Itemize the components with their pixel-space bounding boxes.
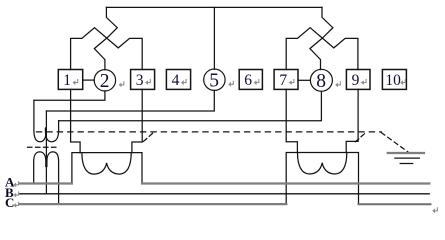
return mark after 8	[335, 81, 340, 87]
wire: horizontal run 1, from CT phase-A riser to terminal 2 bottom	[34, 91, 105, 100]
wire: left crossing, top-bus to terminal 2 top (zigzag with X)	[94, 7, 117, 69]
svg-text:9: 9	[352, 72, 360, 89]
terminal circle 2	[94, 70, 115, 91]
transformer TV primary loop U1 (phase A side)	[34, 100, 46, 141]
element 1 current coil frame (in series with bus A)	[72, 153, 142, 184]
terminal box 7	[274, 70, 298, 90]
return mark after 3	[145, 79, 150, 85]
terminal box 9	[346, 70, 370, 90]
transformer TV secondary loop W1 to bus A	[34, 152, 46, 184]
bus C left segment (gray)	[20, 203, 287, 205]
ground symbol middle bar	[395, 157, 419, 159]
return mark after A	[13, 181, 18, 187]
wire: right crossing, top-bus to terminal 8 top (zigzag with X)	[310, 7, 333, 69]
wire: link terminal 7 to terminal 8	[298, 79, 310, 81]
return mark after 7	[289, 79, 294, 85]
wire: left crossing, terminal 1 to terminal 3 (zigzag link over X)	[71, 28, 143, 70]
terminal box 4	[166, 70, 190, 90]
wire: horizontal run 3, from CT phase-C riser to terminal 8 bottom	[59, 91, 322, 120]
element 1 current coil winding arcs	[82, 153, 131, 175]
return mark after 5	[228, 81, 233, 87]
svg-text:7: 7	[279, 72, 287, 89]
return mark after 6	[254, 79, 259, 85]
terminal box 6	[239, 70, 262, 90]
svg-text:C: C	[5, 195, 14, 210]
svg-text:4: 4	[172, 72, 180, 89]
wire: link terminal 1 to terminal 2	[83, 79, 95, 81]
svg-text:5: 5	[209, 70, 219, 91]
wire: terminal 1 drop to left coil step	[71, 89, 81, 152]
return mark after C	[13, 202, 18, 208]
wire: right crossing, terminal 7 to terminal 9 (zigzag link over X)	[286, 28, 358, 70]
bus A left segment (gray)	[20, 182, 72, 184]
ground symbol top bar	[388, 152, 424, 154]
return mark after 10	[400, 79, 405, 85]
bus A right segment (gray)	[142, 182, 429, 184]
return mark after 1	[73, 79, 78, 85]
return mark after 4	[181, 79, 186, 85]
wire: terminal 7 drop to right coil step	[286, 89, 297, 152]
wire: horizontal run 2, from CT phase-B riser to terminal 5 bottom	[46, 91, 214, 112]
svg-text:10: 10	[385, 72, 401, 89]
wire: riser from terminal 5 to top bus	[213, 7, 215, 69]
svg-text:2: 2	[100, 71, 110, 92]
wire: earth link branch from element 2 corner (dashed)	[355, 133, 365, 142]
transformer TV secondary loop W2 to bus C	[47, 152, 59, 204]
bus C right segment (gray)	[359, 203, 431, 205]
terminal circle 5	[204, 69, 225, 90]
svg-text:3: 3	[136, 72, 144, 89]
element 2 current coil winding arcs	[298, 153, 347, 175]
svg-text:1: 1	[63, 72, 71, 89]
bus B (black)	[20, 193, 429, 195]
terminal box 3	[131, 70, 155, 90]
wire: earth link (dashed main run)	[37, 131, 382, 133]
svg-text:8: 8	[316, 71, 326, 92]
terminal box 1	[58, 70, 82, 90]
return mark after 2	[119, 81, 124, 87]
terminal box 10	[382, 70, 406, 90]
return mark after B	[13, 192, 18, 198]
wire: terminal 9 drop to right coil step	[346, 89, 358, 152]
ground symbol bottom bar	[400, 163, 413, 165]
terminal circle 8	[310, 69, 332, 91]
wire: terminal 3 drop to left coil step	[132, 89, 142, 152]
return mark after 9	[361, 79, 366, 85]
wire: phase B conductor through transformer to bus B	[45, 111, 47, 194]
wire: earth link drop to ground (dashed)	[381, 133, 408, 152]
wire: top bus line (node between voltage crossings)	[106, 6, 322, 8]
element 2 current coil frame (in series with bus C)	[286, 153, 358, 205]
svg-text:6: 6	[244, 72, 252, 89]
transformer TV core (dashed)	[28, 146, 58, 148]
paragraph return mark at page end	[432, 207, 437, 213]
transformer TV primary loop U2 (phase C side, rises to run 3)	[45, 121, 58, 142]
wire: earth link branch from element 1 corner (dashed)	[144, 133, 154, 142]
